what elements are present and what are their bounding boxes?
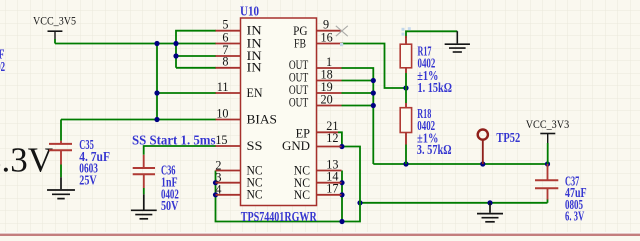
junction dots NC left — [213, 180, 218, 185]
pin 4 NC (left) — [216, 194, 241, 196]
pin 21 EP (right) — [317, 131, 339, 133]
pin 19 OUT (right) — [317, 92, 342, 94]
node FB junction — [403, 85, 408, 90]
wire R17-R18 — [405, 73, 407, 103]
wire FB net — [342, 44, 407, 89]
wire VCC_3V3 bus — [373, 163, 547, 165]
svg-text:FB: FB — [294, 36, 306, 51]
svg-text:TPS74401RGWR: TPS74401RGWR — [241, 209, 317, 224]
wire NC right column — [341, 171, 343, 222]
test point TP52 — [478, 130, 488, 140]
wire pin8 branch — [176, 67, 216, 69]
svg-text:SS: SS — [247, 138, 263, 153]
junction dots OUT net — [371, 78, 376, 83]
svg-text:VCC_3V3: VCC_3V3 — [526, 117, 570, 131]
wire pin7 branch — [176, 55, 216, 57]
svg-text:IN: IN — [247, 60, 263, 75]
pin 9 PG (right) — [317, 30, 342, 32]
pin 2 NC (left) — [216, 170, 241, 172]
wire OUT pin20 — [342, 105, 374, 107]
resistor R17 — [405, 36, 407, 44]
capacitor C37 — [547, 164, 549, 180]
pin 1 OUT (right) — [317, 67, 342, 69]
pin 7 IN (left) — [216, 55, 241, 57]
wire GND pin down — [216, 147, 361, 222]
wire C37 bottom — [547, 200, 549, 203]
ground C35 — [47, 177, 75, 198]
svg-text:17: 17 — [326, 182, 338, 196]
pin 8 IN (left) — [216, 67, 241, 69]
capacitor C35 — [60, 141, 62, 144]
svg-text:VCC_3V5: VCC_3V5 — [33, 13, 76, 27]
wire R17 top to ground — [406, 31, 457, 38]
wire pin5 branch — [176, 31, 216, 68]
ground (bottom middle) — [477, 203, 503, 222]
pin 15 SS (left) — [216, 145, 241, 147]
wire OUT pin1 — [342, 68, 374, 164]
svg-text:25V: 25V — [79, 173, 97, 188]
svg-text:U10: U10 — [240, 4, 259, 19]
svg-text:8: 8 — [222, 55, 228, 69]
ground C36 — [131, 194, 157, 219]
pin 14 NC (right) — [317, 182, 342, 184]
wire SS net — [144, 146, 216, 155]
wire R18 bottom — [405, 145, 407, 165]
wire EN branch — [157, 92, 216, 94]
svg-text:BIAS: BIAS — [247, 111, 278, 126]
svg-text:EN: EN — [247, 85, 264, 100]
pin 3 NC (left) — [216, 182, 241, 184]
wire GND net horizontal — [360, 202, 548, 204]
svg-text:TP52: TP52 — [496, 130, 520, 145]
svg-text:6. 3V: 6. 3V — [565, 209, 585, 224]
wire VCC_3V3 stem — [547, 143, 549, 164]
svg-text:0402: 0402 — [0, 59, 5, 74]
resistor R18 — [405, 103, 407, 108]
svg-text:11: 11 — [217, 80, 229, 94]
pin 5 IN (left) — [216, 30, 241, 32]
svg-text:NC: NC — [294, 187, 310, 202]
pin 12 GND (right) — [317, 146, 342, 148]
pin 10 BIAS (left) — [216, 119, 241, 121]
svg-text:12: 12 — [326, 131, 338, 145]
wire OUT pin18 — [342, 80, 374, 82]
svg-text:50V: 50V — [161, 198, 179, 213]
pin 18 OUT (right) — [317, 80, 342, 82]
svg-text:16: 16 — [321, 30, 333, 44]
junction dots input net — [154, 41, 159, 46]
svg-text:4: 4 — [215, 183, 221, 197]
pin 6 IN (left) — [216, 43, 241, 45]
sheet border line — [0, 232, 640, 234]
op-amp U10 body — [241, 18, 317, 206]
pin 11 EN (left) — [216, 92, 241, 94]
wire BIAS net — [61, 119, 216, 121]
pin 17 NC (right) — [317, 194, 342, 196]
svg-text:OUT: OUT — [289, 94, 308, 109]
snap marker artifact — [402, 28, 405, 31]
svg-text:NC: NC — [247, 187, 263, 202]
svg-text:3.3V: 3.3V — [0, 141, 53, 180]
svg-text:1. 15kΩ: 1. 15kΩ — [418, 80, 453, 95]
wire EP to GND — [338, 132, 342, 146]
wire VCC_3V5 horizontal — [54, 39, 56, 44]
pin 13 NC (right) — [317, 170, 342, 172]
wire OUT pin19 — [342, 92, 374, 94]
pin 16 FB (right) — [317, 43, 342, 45]
svg-text:10: 10 — [216, 106, 228, 120]
svg-text:3. 57kΩ: 3. 57kΩ — [417, 142, 452, 157]
ground (top right) — [445, 31, 470, 52]
capacitor C36 — [143, 155, 145, 168]
svg-text:20: 20 — [321, 92, 333, 106]
no-ERC marker pin 9 — [336, 26, 348, 36]
svg-text:GND: GND — [282, 138, 310, 153]
pin 20 OUT (right) — [317, 105, 342, 107]
svg-text:15: 15 — [215, 133, 227, 147]
